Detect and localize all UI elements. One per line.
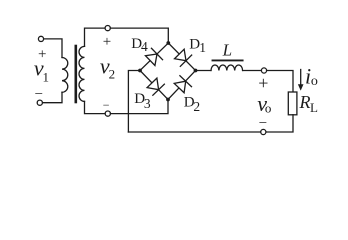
- bridge arm top-right: [168, 43, 195, 71]
- current arrow io: [300, 70, 302, 89]
- bridge arm top-left: [140, 43, 168, 71]
- resistor RL: [288, 92, 297, 115]
- inductor L winding: [211, 65, 243, 71]
- wire to bridge top: [110, 28, 168, 43]
- junction node left: [138, 69, 142, 73]
- wire RL bottom to rail: [266, 115, 293, 132]
- bridge arm bottom-left: [140, 71, 168, 100]
- terminal vo+: [261, 68, 266, 73]
- terminal v1 top: [38, 36, 43, 41]
- wire bridge right to inductor: [196, 70, 212, 72]
- bottom rail wire: [128, 131, 260, 133]
- wire vo+ to RL top: [267, 71, 293, 93]
- svg-text:−: −: [259, 115, 267, 131]
- transformer secondary winding: [79, 46, 85, 101]
- wire inductor to vo+: [243, 70, 262, 72]
- diode D1: [174, 48, 192, 66]
- wire secondary top: [85, 28, 106, 46]
- wire bridge left to bottom rail: [128, 71, 140, 133]
- junction node bottom: [166, 98, 170, 102]
- svg-text:o: o: [265, 100, 272, 115]
- inductor core bar: [213, 59, 243, 61]
- svg-text:1: 1: [43, 70, 50, 85]
- svg-text:2: 2: [109, 66, 116, 81]
- svg-text:L: L: [310, 100, 318, 115]
- transformer core: [75, 46, 78, 102]
- svg-text:−: −: [35, 87, 43, 103]
- svg-text:L: L: [222, 41, 232, 60]
- svg-text:o: o: [311, 74, 318, 89]
- wire: [43, 92, 63, 102]
- diode D3: [146, 77, 164, 95]
- diode D2: [173, 76, 191, 94]
- svg-text:+: +: [258, 73, 268, 93]
- svg-text:3: 3: [144, 96, 151, 111]
- svg-text:R: R: [299, 92, 311, 112]
- bridge arm bottom-right: [168, 71, 196, 100]
- svg-text:2: 2: [193, 99, 200, 114]
- junction node top: [166, 41, 170, 45]
- terminal v1 bottom: [37, 100, 42, 105]
- wire to bridge bottom: [111, 100, 169, 114]
- svg-text:1: 1: [199, 40, 206, 55]
- svg-text:4: 4: [141, 39, 148, 54]
- svg-text:−: −: [103, 98, 110, 112]
- transformer primary winding: [62, 58, 68, 93]
- terminal vo-: [261, 129, 266, 134]
- wire: [44, 39, 62, 58]
- terminal v2 top: [105, 26, 110, 31]
- svg-text:+: +: [103, 34, 111, 50]
- diode D4: [145, 48, 163, 66]
- terminal v2 bottom: [105, 111, 110, 116]
- junction node right: [194, 69, 198, 73]
- wire secondary bottom: [85, 101, 106, 113]
